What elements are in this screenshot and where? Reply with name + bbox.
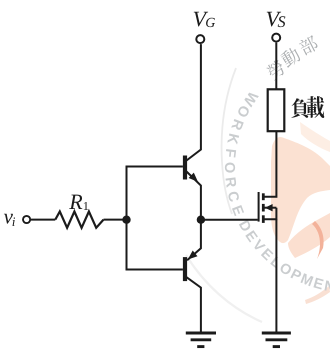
supply VG terminal <box>196 35 204 43</box>
wire input to resistor <box>31 219 55 221</box>
label VS <box>267 12 281 27</box>
MOSFET channel segment source <box>262 215 265 223</box>
ground symbol G2 <box>262 332 291 335</box>
MOSFET drain connection <box>264 131 276 197</box>
wire to Q2 base <box>126 269 183 271</box>
label v_i <box>4 214 13 224</box>
watermark (decorative logo) <box>186 34 330 322</box>
label load 負載 <box>291 98 308 117</box>
wire VS to load <box>275 43 277 90</box>
transistor Q1 collector <box>187 44 201 160</box>
resistor R1 <box>55 212 103 228</box>
input terminal circle <box>23 216 30 223</box>
label R1 <box>69 195 82 209</box>
MOSFET M1 gate line <box>258 192 260 222</box>
wire vertical input node <box>126 166 128 271</box>
junction dot input node <box>122 216 130 224</box>
output node dot <box>197 216 205 224</box>
wire source to ground <box>275 219 277 332</box>
transistor Q2 collector <box>187 277 201 332</box>
transistor Q1 emitter with arrow <box>187 172 201 220</box>
MOSFET source connection <box>264 208 276 220</box>
load resistor box <box>268 89 285 131</box>
ground symbol G1 <box>186 332 216 335</box>
supply VS terminal <box>272 34 280 42</box>
MOSFET channel segment body <box>262 204 265 212</box>
label VG <box>194 12 208 27</box>
transistor Q2 emitter with arrow <box>187 220 201 261</box>
MOSFET channel segment drain <box>262 193 265 200</box>
wire to Q1 base <box>126 166 183 168</box>
transistor Q1 (NPN) base bar <box>183 156 187 180</box>
wire resistor to junction <box>104 219 127 221</box>
MOSFET body arrow <box>264 207 276 209</box>
transistor Q2 (PNP) base bar <box>183 257 187 281</box>
wire output node to MOSFET gate <box>201 219 258 221</box>
